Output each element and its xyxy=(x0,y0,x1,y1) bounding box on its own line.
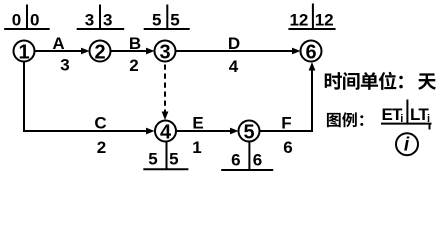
svg-text:12: 12 xyxy=(315,10,334,29)
wire activity E (4 to 5) xyxy=(177,128,239,135)
svg-text:6: 6 xyxy=(253,151,262,170)
svg-text:5: 5 xyxy=(243,121,254,143)
svg-text:5: 5 xyxy=(170,10,179,29)
svg-text:A: A xyxy=(52,34,64,53)
legend node i xyxy=(396,133,418,155)
svg-text:4: 4 xyxy=(229,57,239,76)
legend LT_i label xyxy=(410,105,430,125)
svg-text:i: i xyxy=(404,135,410,156)
node 1 xyxy=(14,41,35,64)
svg-text:B: B xyxy=(129,34,141,53)
svg-text:5: 5 xyxy=(152,10,161,29)
svg-text:E: E xyxy=(192,114,203,133)
legend ET_i label xyxy=(382,105,404,125)
svg-text:1: 1 xyxy=(18,41,29,63)
svg-text:4: 4 xyxy=(160,121,172,143)
time label node 4: ET=5 LT=5 xyxy=(143,142,188,169)
svg-text:C: C xyxy=(94,114,106,133)
time label node 2: ET=3 LT=3 xyxy=(77,5,125,30)
time label node 5: ET=6 LT=6 xyxy=(221,142,273,170)
node 5 xyxy=(239,121,260,144)
dummy activity dashed arrow (3 to 4) xyxy=(162,65,169,121)
svg-text:D: D xyxy=(228,34,240,53)
wire activity F (5 to 6, L-shaped) xyxy=(260,62,316,131)
svg-text:3: 3 xyxy=(85,10,94,29)
svg-text:5: 5 xyxy=(169,150,178,169)
legend text: 时间单位：天 (time unit: days) xyxy=(325,72,436,90)
wire activity B (2 to 3) xyxy=(111,48,155,55)
svg-text:6: 6 xyxy=(305,41,316,63)
node 6 xyxy=(301,41,322,64)
legend underline right tick xyxy=(429,124,431,130)
svg-text:5: 5 xyxy=(148,150,157,169)
legend underline xyxy=(381,123,432,125)
svg-text:6: 6 xyxy=(231,151,240,170)
legend divider bar xyxy=(406,100,408,124)
time label node 1: ET=0 LT=0 xyxy=(4,5,50,30)
svg-text:6: 6 xyxy=(283,138,292,157)
node 4 xyxy=(155,121,176,144)
svg-text:2: 2 xyxy=(97,138,106,157)
legend text: 图例： (legend:) xyxy=(327,112,363,127)
wire activity C (1 to 4, L-shaped) xyxy=(24,62,155,135)
wire activity D (3 to 6) xyxy=(176,48,301,55)
node 2 xyxy=(90,41,111,64)
svg-text:0: 0 xyxy=(30,10,39,29)
node 3 xyxy=(155,41,176,64)
svg-text:3: 3 xyxy=(159,41,170,63)
svg-text:2: 2 xyxy=(129,56,138,75)
time label node 3: ET=5 LT=5 xyxy=(144,5,190,30)
time label node 6: ET=12 LT=12 xyxy=(288,4,335,30)
svg-text:1: 1 xyxy=(192,138,201,157)
svg-text:3: 3 xyxy=(103,10,112,29)
svg-text:F: F xyxy=(281,114,291,133)
wire activity A (1 to 2) xyxy=(35,48,90,55)
svg-text:3: 3 xyxy=(60,56,69,75)
svg-text:0: 0 xyxy=(12,10,21,29)
svg-text:12: 12 xyxy=(289,10,308,29)
svg-text:2: 2 xyxy=(94,41,105,63)
